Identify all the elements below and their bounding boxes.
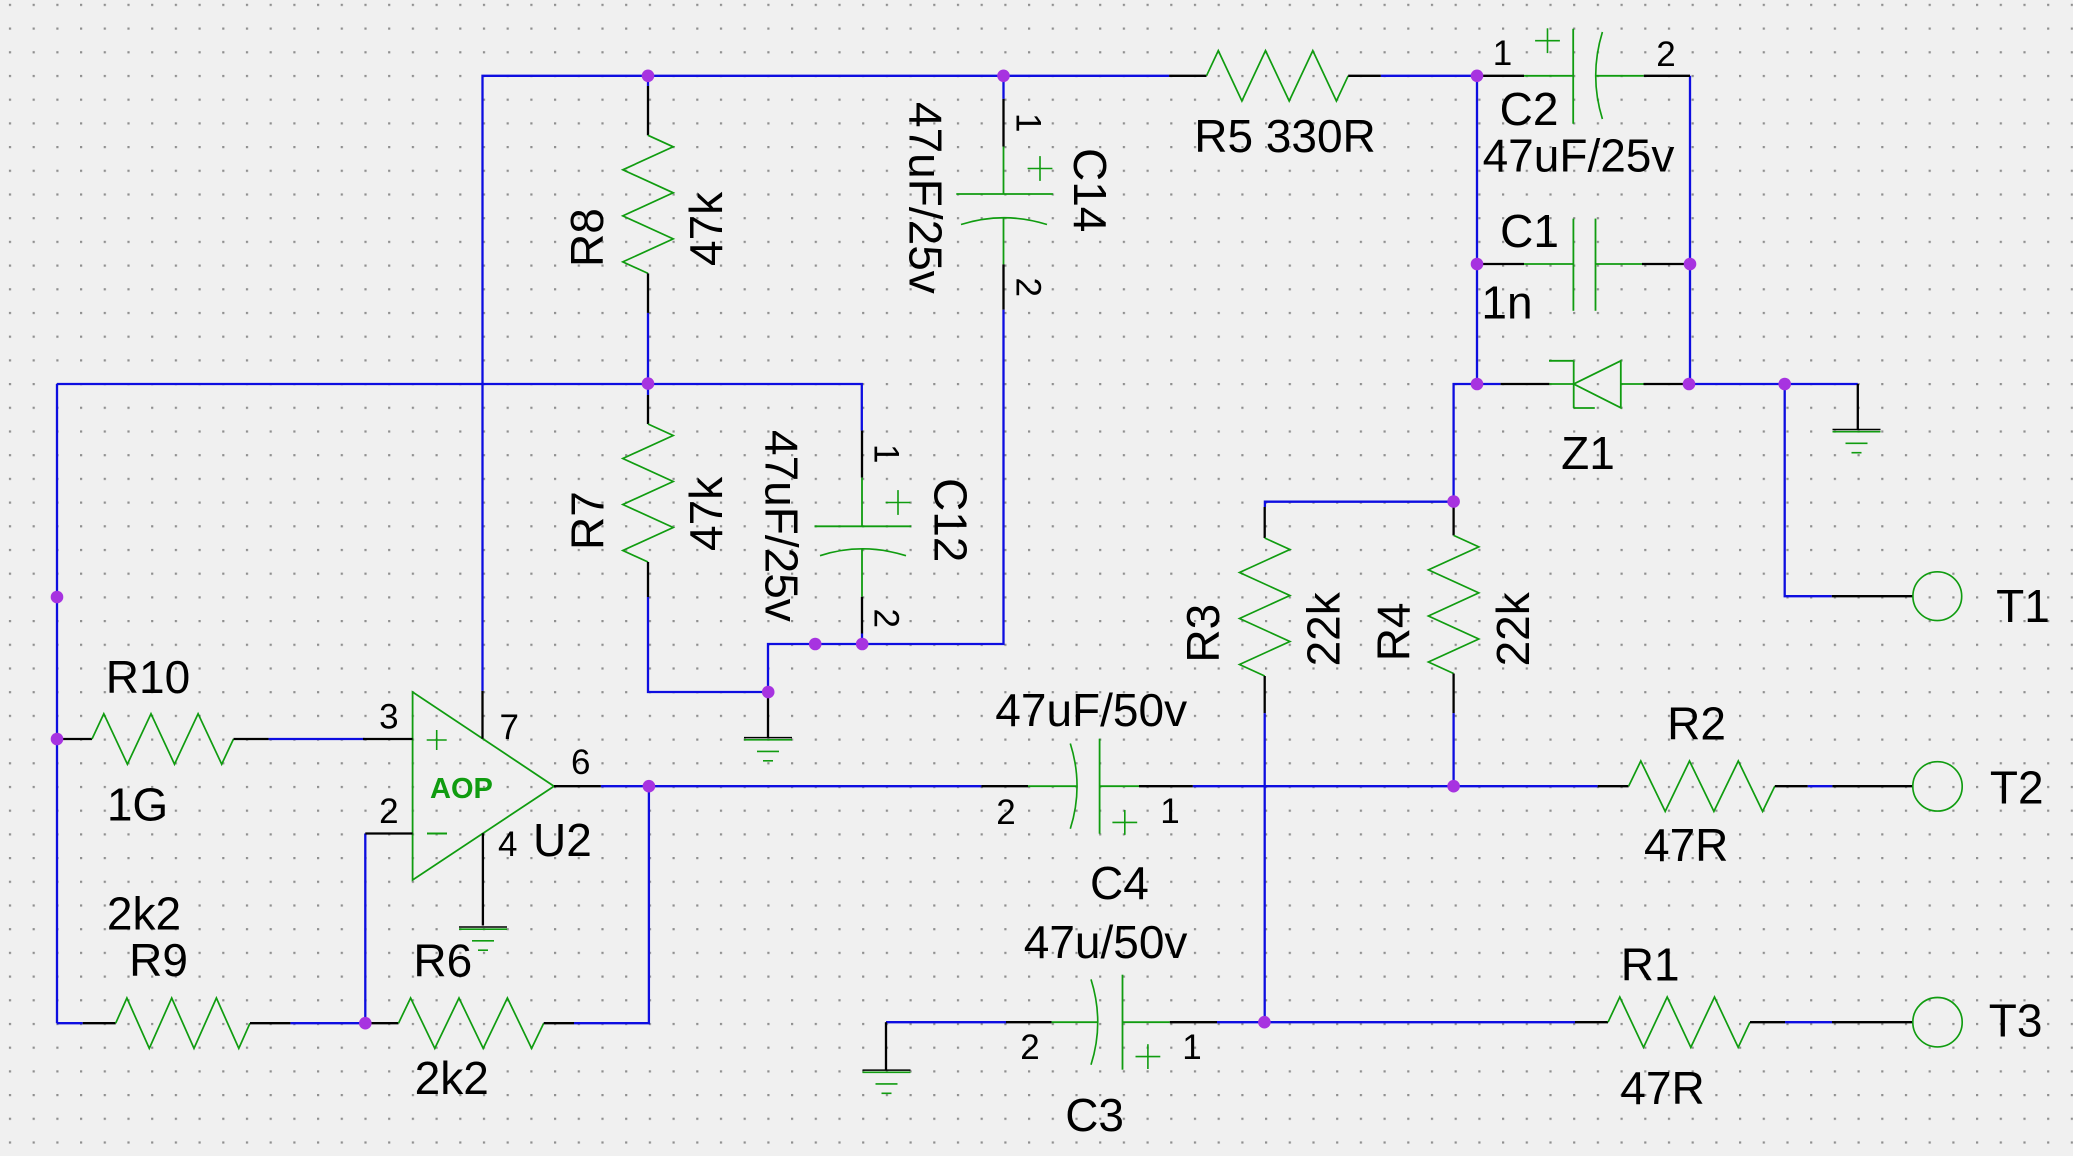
wire R3 bottom down to C3 row bbox=[1264, 713, 1266, 1022]
ground at op-amp pin 4 bbox=[459, 927, 507, 950]
label R9 bbox=[129, 934, 188, 986]
svg-text:4: 4 bbox=[498, 825, 517, 864]
wire Z1 node to ground elbow bbox=[1689, 383, 1858, 385]
label T1 bbox=[1996, 580, 2050, 632]
label R2 value 47R bbox=[1644, 819, 1728, 871]
label C2 pin 1 bbox=[1493, 34, 1512, 73]
junction C1 pin1 bbox=[1471, 258, 1484, 271]
svg-text:T3: T3 bbox=[1989, 994, 2043, 1046]
label R8 bbox=[561, 208, 613, 267]
wire output row to C4 bbox=[601, 785, 981, 787]
op-amp pin 7 bbox=[481, 691, 483, 739]
label C4 pin 1 bbox=[1160, 792, 1179, 831]
svg-text:47uF/25v: 47uF/25v bbox=[756, 430, 808, 622]
label T3 bbox=[1989, 994, 2043, 1046]
svg-text:47uF/25v: 47uF/25v bbox=[1483, 130, 1675, 182]
svg-text:2: 2 bbox=[867, 609, 906, 628]
wire R4 bottom to T2 row bbox=[1452, 713, 1454, 786]
svg-text:R7: R7 bbox=[561, 491, 613, 550]
label R7 bbox=[561, 491, 613, 550]
junction Z1 right node bbox=[1683, 378, 1696, 391]
svg-text:R2: R2 bbox=[1667, 698, 1726, 750]
svg-text:2: 2 bbox=[996, 793, 1015, 832]
label Z1 bbox=[1561, 427, 1615, 479]
resistor R3 bbox=[1240, 507, 1290, 713]
resistor R7 bbox=[623, 395, 673, 597]
resistor R9 bbox=[83, 998, 291, 1048]
op-amp pin 4 bbox=[482, 833, 484, 925]
junction R4 / T2 row bbox=[1447, 780, 1460, 793]
label R1 bbox=[1621, 939, 1680, 991]
svg-text:C14: C14 bbox=[1064, 148, 1116, 232]
wire R8 top stub bbox=[647, 76, 649, 86]
svg-text:R9: R9 bbox=[129, 934, 188, 986]
svg-text:R4: R4 bbox=[1368, 602, 1420, 661]
label C3 bbox=[1065, 1089, 1124, 1141]
label C2 pin 2 bbox=[1656, 35, 1675, 74]
svg-text:AOP: AOP bbox=[430, 773, 493, 805]
label R2 bbox=[1667, 698, 1726, 750]
wire R8 bottom to rail bbox=[647, 313, 649, 384]
resistor R2 bbox=[1598, 761, 1808, 811]
svg-text:2k2: 2k2 bbox=[415, 1052, 489, 1104]
wire T1 node down and right bbox=[1785, 384, 1832, 596]
label C3 value 47u/50v bbox=[1024, 916, 1188, 968]
wire C14 top stub bbox=[1002, 76, 1004, 99]
svg-text:1: 1 bbox=[867, 444, 906, 463]
svg-text:C2: C2 bbox=[1500, 83, 1559, 135]
wire feedback rail y=384 to C12 bbox=[57, 384, 862, 431]
label R1 value 47R bbox=[1620, 1062, 1704, 1114]
wire top rail from op-amp pin7 riser to C2 node bbox=[483, 76, 1170, 691]
label C12 pin 2 bbox=[867, 609, 906, 628]
wire C3 to R1 bbox=[1217, 1021, 1575, 1023]
wire left column to R9 bbox=[57, 1022, 83, 1024]
wire C4 to R4 node and R2 bbox=[1193, 785, 1598, 787]
wire mid node up to C12/C14 row bbox=[768, 310, 1004, 692]
svg-text:22k: 22k bbox=[1487, 591, 1539, 666]
label C4 bbox=[1090, 857, 1149, 909]
label C2 value 47uF/25v bbox=[1483, 130, 1675, 182]
svg-text:1G: 1G bbox=[107, 779, 168, 831]
junction C12 row a bbox=[809, 638, 822, 651]
svg-text:1: 1 bbox=[1009, 113, 1048, 132]
svg-text:6: 6 bbox=[571, 743, 590, 782]
svg-text:1n: 1n bbox=[1481, 277, 1532, 329]
label C14 value 47uF/25v bbox=[900, 102, 952, 294]
wire R5 right lead to C2 node bbox=[1381, 75, 1477, 77]
label T2 bbox=[1990, 762, 2044, 814]
svg-text:47R: 47R bbox=[1620, 1062, 1704, 1114]
wire R2 to T2 bbox=[1808, 785, 1833, 787]
svg-text:3: 3 bbox=[379, 698, 398, 737]
zener diode Z1 bbox=[1501, 361, 1689, 408]
resistor R1 bbox=[1575, 997, 1785, 1047]
wire Z1 left stub bbox=[1477, 383, 1501, 385]
resistor R10 bbox=[57, 714, 269, 764]
wire R4 top stub bbox=[1452, 502, 1454, 508]
svg-text:C4: C4 bbox=[1090, 857, 1149, 909]
capacitor C4 47uF/50v bbox=[981, 739, 1192, 835]
wire R10 to op-amp pin3 bbox=[269, 738, 365, 740]
wire R9 to node R6 bbox=[290, 1022, 365, 1024]
svg-text:C12: C12 bbox=[925, 478, 977, 562]
label C12 pin 1 bbox=[867, 444, 906, 463]
wire R1 to T3 bbox=[1785, 1021, 1832, 1023]
label C12 value 47uF/25v bbox=[756, 430, 808, 622]
svg-text:1: 1 bbox=[1493, 34, 1512, 73]
label R9 value 2k2 bbox=[107, 887, 181, 939]
svg-text:2: 2 bbox=[1656, 35, 1675, 74]
label R5 330R bbox=[1194, 110, 1376, 162]
wire C3 ground elbow to C3 bbox=[886, 1021, 1006, 1023]
junction C3 / R3 node bbox=[1258, 1016, 1271, 1029]
label C14 pin 1 bbox=[1009, 113, 1048, 132]
ground at mid node bbox=[744, 692, 792, 761]
resistor R8 bbox=[623, 86, 673, 313]
svg-text:47R: 47R bbox=[1644, 819, 1728, 871]
wire R7 top stub bbox=[647, 384, 649, 395]
op-amp pin 3 bbox=[363, 738, 413, 740]
label pin 7 bbox=[500, 708, 519, 747]
svg-text:R8: R8 bbox=[561, 208, 613, 267]
capacitor C12 47uF/25v bbox=[815, 431, 912, 634]
label C2 bbox=[1500, 83, 1559, 135]
wire R3/R4 top rail bbox=[1265, 502, 1454, 507]
svg-text:2k2: 2k2 bbox=[107, 887, 181, 939]
junction R9/R6/pin2 node bbox=[359, 1017, 372, 1030]
svg-text:47uF/50v: 47uF/50v bbox=[995, 684, 1187, 736]
terminal T3 bbox=[1832, 998, 1962, 1047]
svg-text:2: 2 bbox=[379, 792, 398, 831]
junction op-amp output node bbox=[643, 780, 656, 793]
label C3 pin 2 bbox=[1020, 1028, 1039, 1067]
svg-text:R10: R10 bbox=[106, 651, 190, 703]
label AOP bbox=[430, 773, 493, 805]
wire op-amp pin2 down to R9/R6 node bbox=[364, 834, 366, 1024]
wire Z1 node down to R3/R4 rail bbox=[1454, 384, 1477, 502]
capacitor C2 47uF/25v bbox=[1477, 28, 1690, 124]
label R4 bbox=[1368, 602, 1420, 661]
resistor R6 bbox=[365, 998, 574, 1048]
label C3 pin 1 bbox=[1182, 1028, 1201, 1067]
svg-text:47uF/25v: 47uF/25v bbox=[900, 102, 952, 294]
junction left column upper bbox=[51, 591, 64, 604]
label R6 bbox=[413, 934, 472, 986]
terminal T2 bbox=[1832, 762, 1962, 811]
label R8 value 47k bbox=[680, 191, 732, 266]
wire left column bbox=[56, 384, 58, 1023]
svg-text:47u/50v: 47u/50v bbox=[1024, 916, 1188, 968]
label C14 pin 2 bbox=[1009, 278, 1048, 297]
capacitor C14 47uF/25v bbox=[956, 99, 1053, 310]
junction mid ground node bbox=[762, 686, 775, 699]
label U2 bbox=[533, 814, 592, 866]
junction rail / R7 R8 bbox=[642, 377, 655, 390]
label C1 value 1n bbox=[1481, 277, 1532, 329]
wire C12 bottom stub bbox=[861, 634, 863, 646]
label pin 4 bbox=[498, 825, 517, 864]
svg-text:47k: 47k bbox=[680, 476, 732, 551]
label pin 6 bbox=[571, 743, 590, 782]
label R3 value 22k bbox=[1297, 591, 1349, 666]
label R7 value 47k bbox=[680, 476, 732, 551]
op-amp pin 6 bbox=[554, 785, 601, 787]
svg-text:R1: R1 bbox=[1621, 939, 1680, 991]
terminal T1 bbox=[1832, 572, 1962, 621]
svg-text:R5 330R: R5 330R bbox=[1194, 110, 1376, 162]
svg-text:1: 1 bbox=[1160, 792, 1179, 831]
capacitor C3 47u/50v bbox=[1006, 975, 1217, 1070]
junction Z1 left node bbox=[1471, 378, 1484, 391]
svg-text:R3: R3 bbox=[1177, 604, 1229, 663]
resistor R5 330R bbox=[1169, 51, 1381, 101]
label R10 bbox=[106, 651, 190, 703]
svg-text:C3: C3 bbox=[1065, 1089, 1124, 1141]
label C14 bbox=[1064, 148, 1116, 232]
label C12 bbox=[925, 478, 977, 562]
svg-text:22k: 22k bbox=[1297, 591, 1349, 666]
svg-text:C1: C1 bbox=[1500, 205, 1559, 257]
label R10 value 1G bbox=[107, 779, 168, 831]
label pin 2 bbox=[379, 792, 398, 831]
wire R7 bottom to mid ground node bbox=[648, 597, 768, 692]
wire C2/C1 right vertical bbox=[1689, 76, 1691, 384]
label R4 value 22k bbox=[1487, 591, 1539, 666]
ground near Z1/T1 bbox=[1833, 384, 1881, 453]
junction T1 branch bbox=[1778, 378, 1791, 391]
svg-text:R6: R6 bbox=[413, 934, 472, 986]
junction top rail / C2 pin1 bbox=[1471, 70, 1484, 83]
label pin 3 bbox=[379, 698, 398, 737]
svg-text:47k: 47k bbox=[680, 191, 732, 266]
junction left column / R10 bbox=[51, 733, 64, 746]
wire R6 right to output node bbox=[574, 786, 649, 1023]
svg-text:1: 1 bbox=[1182, 1028, 1201, 1067]
svg-text:Z1: Z1 bbox=[1561, 427, 1615, 479]
label R6 value 2k2 bbox=[415, 1052, 489, 1104]
junction R3/R4 rail bbox=[1447, 495, 1460, 508]
junction top rail / C14 bbox=[997, 70, 1010, 83]
svg-text:U2: U2 bbox=[533, 814, 592, 866]
ground at C3 bbox=[863, 1022, 911, 1093]
op-amp U2 triangle bbox=[413, 692, 554, 880]
svg-text:2: 2 bbox=[1009, 278, 1048, 297]
junction C12 pin2 bbox=[856, 638, 869, 651]
svg-text:T1: T1 bbox=[1996, 580, 2050, 632]
op-amp pin 2 bbox=[365, 832, 412, 834]
label R3 bbox=[1177, 604, 1229, 663]
svg-text:T2: T2 bbox=[1990, 762, 2044, 814]
resistor R4 bbox=[1428, 507, 1478, 713]
label C4 pin 2 bbox=[996, 793, 1015, 832]
svg-text:7: 7 bbox=[500, 708, 519, 747]
capacitor C1 1n bbox=[1477, 219, 1690, 311]
label C1 bbox=[1500, 205, 1559, 257]
wire C2/C1 left vertical bbox=[1476, 76, 1478, 384]
junction top rail / R8 bbox=[642, 70, 655, 83]
junction C1 pin2 bbox=[1684, 258, 1697, 271]
svg-text:2: 2 bbox=[1020, 1028, 1039, 1067]
label C4 value 47uF/50v bbox=[995, 684, 1187, 736]
